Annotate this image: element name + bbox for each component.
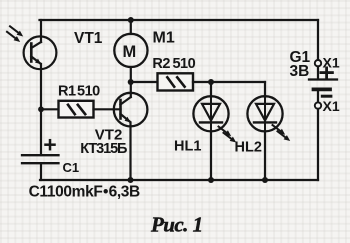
svg-text:HL2: HL2	[235, 140, 262, 156]
junction dot R1 branch	[38, 106, 44, 112]
junction dot HL1 cathode	[208, 177, 214, 183]
svg-text:X1: X1	[323, 54, 340, 70]
junction dot top rail / M1	[128, 17, 134, 23]
wire R1 right lead / VT2 base	[94, 108, 121, 110]
motor M1	[114, 34, 147, 67]
wire R1 left lead	[41, 108, 59, 110]
wire top rail	[40, 19, 319, 21]
wire HL2 top lead	[264, 82, 266, 97]
svg-text:C1100mkF•6,3В: C1100mkF•6,3В	[29, 183, 140, 200]
wire M1 to VT2	[130, 67, 132, 97]
wire right rail top	[317, 20, 319, 60]
svg-text:X1: X1	[323, 98, 340, 114]
wire R2 left lead	[131, 81, 158, 83]
light arrows out of HL1	[219, 127, 237, 143]
wire HL1 cathode to bottom rail	[210, 131, 212, 180]
wire right rail bottom	[317, 109, 319, 180]
resistor R2	[158, 73, 194, 90]
battery G1 negative plate	[314, 88, 331, 92]
terminal X1 top	[315, 60, 321, 66]
terminal X1 bottom	[315, 102, 321, 108]
svg-text:КТ315Б: КТ315Б	[80, 141, 127, 157]
svg-text:3В: 3В	[290, 63, 310, 80]
capacitor C1	[22, 155, 59, 163]
junction dot HL2 cathode	[262, 177, 268, 183]
svg-text:VT1: VT1	[74, 30, 103, 47]
light arrows out of HL2	[273, 125, 291, 141]
svg-text:C1: C1	[63, 160, 80, 175]
wire left rail VT1 emitter to C1	[40, 64, 42, 155]
wire HL2 cathode to bottom rail	[264, 131, 266, 180]
minus sign battery	[322, 95, 331, 98]
svg-text:R2510: R2510	[152, 56, 195, 72]
light arrows into VT1	[7, 26, 23, 42]
svg-text:HL1: HL1	[174, 139, 201, 155]
wire X1 to battery	[317, 66, 319, 78]
junction dot VT2 emitter	[128, 177, 134, 183]
svg-text:M: M	[123, 43, 137, 61]
C1 plus sign	[46, 140, 55, 149]
battery G1 positive plate	[309, 78, 337, 80]
LED HL1	[193, 96, 228, 131]
wire battery to X1 bottom	[317, 91, 319, 102]
LED HL2	[247, 96, 282, 131]
svg-text:Рис. 1: Рис. 1	[150, 212, 203, 236]
wire M1 top lead	[130, 20, 132, 34]
wire VT1 collector lead	[40, 20, 42, 42]
junction dot HL1 branch	[208, 79, 214, 85]
wire VT2 emitter to bottom rail	[129, 123, 131, 181]
wire C1 to bottom rail	[40, 163, 42, 180]
wire anode rail R2 to HL2	[193, 81, 265, 83]
phototransistor VT1	[24, 36, 57, 69]
junction dot R2 branch	[128, 79, 134, 85]
transistor VT2	[114, 93, 148, 127]
wire HL1 top lead	[210, 82, 212, 97]
wire bottom rail	[40, 179, 318, 181]
svg-text:M1: M1	[153, 29, 175, 46]
resistor R1	[59, 101, 94, 118]
plus sign battery	[321, 68, 333, 78]
svg-text:R1510: R1510	[58, 83, 100, 99]
